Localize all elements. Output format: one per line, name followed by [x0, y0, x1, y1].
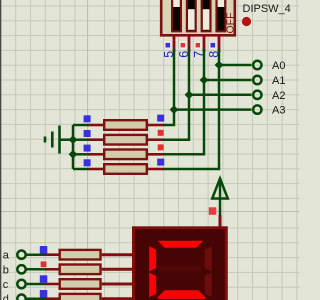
state square R3 left (low) [84, 145, 91, 152]
state square b (high) [40, 261, 48, 269]
terminal a [17, 251, 25, 259]
pin 5 stub [173, 35, 176, 53]
state square R2 right (high) [157, 129, 164, 136]
junction pin6/A2 [185, 90, 194, 99]
wire a to R5 [26, 253, 45, 256]
state square R2 left (low) [84, 130, 91, 137]
svg-text:A2: A2 [272, 90, 285, 102]
state square R3 right (high) [157, 144, 164, 151]
pin 8 stub [218, 35, 221, 53]
interactive toggle dot [242, 17, 251, 26]
terminal c [17, 280, 25, 288]
wire R8 to display seg d [102, 297, 133, 300]
resistor R6 [45, 265, 101, 275]
state square R1 right (low) [157, 115, 164, 122]
wire pin7 down to resistor R3 [163, 49, 204, 154]
7-segment display U1 [134, 228, 227, 300]
segment a (lit) [158, 241, 204, 248]
wire node A3 [174, 108, 252, 111]
wire node A2 [189, 94, 252, 97]
svg-text:b: b [3, 264, 9, 276]
wire ground to bus [60, 138, 73, 141]
wire bus to R4 [73, 168, 89, 171]
state square pin 6 (high) [179, 42, 186, 49]
wire R7 to display seg c [102, 283, 133, 286]
junction pin5/A3 [170, 105, 179, 114]
junction pin7/A1 [200, 76, 209, 85]
state square pin 5 (low) [164, 42, 171, 49]
power symbol [212, 179, 228, 216]
wire c to R7 [26, 283, 45, 286]
svg-text:A0: A0 [272, 60, 285, 72]
resistor R1 [89, 120, 164, 130]
state square R4 right (low) [157, 159, 164, 166]
segment c (floating/dim) [205, 273, 212, 298]
svg-text:c: c [3, 279, 9, 291]
terminal A3 [253, 105, 261, 113]
segment f (lit) [149, 246, 156, 271]
wire bus to R2 [73, 138, 89, 141]
state square a (low) [40, 246, 48, 254]
switch slot 4 (handle up) [216, 0, 225, 31]
state square pin 7 (high) [194, 42, 201, 49]
segment e (lit) [149, 273, 156, 298]
state square c (low) [40, 275, 48, 283]
wire pin6 down to resistor R2 [163, 49, 189, 140]
resistor R8 [45, 294, 101, 300]
wire bus to R3 [73, 153, 89, 156]
resistor R7 [45, 279, 101, 289]
wire pin8 down to resistor R4 [163, 49, 219, 169]
switch slot 2 (handle down) [187, 0, 196, 31]
svg-text:A1: A1 [272, 75, 285, 87]
switch slot 3 (handle down) [202, 0, 211, 31]
svg-text:DIPSW_4: DIPSW_4 [243, 3, 291, 15]
switch slot 1 (handle up) [172, 0, 181, 31]
terminal b [17, 265, 25, 273]
wire R6 to display seg b [102, 268, 133, 271]
terminal A0 [253, 61, 261, 69]
segment b (floating/dim) [205, 246, 212, 271]
pin 7 stub [203, 35, 206, 53]
ground [45, 126, 60, 154]
junction bus/ground [69, 135, 78, 144]
wire d to R8 [26, 297, 45, 300]
wire bus to R1 [73, 124, 89, 127]
junction pin8/A0 [215, 61, 224, 70]
resistor R2 [89, 135, 164, 145]
state square display top pin (high) [209, 207, 217, 215]
state square R1 left (low) [84, 115, 91, 122]
svg-text:a: a [3, 250, 10, 262]
svg-text:OFF: OFF [225, 13, 237, 34]
resistor R5 [45, 250, 101, 260]
resistor R4 [89, 164, 164, 174]
segment g (off) [158, 266, 204, 273]
ground bus wire [72, 125, 75, 169]
terminal A2 [253, 91, 261, 99]
dip switch DIPSW_4 [161, 0, 236, 35]
svg-text:A3: A3 [272, 105, 285, 117]
wire node A1 [204, 79, 252, 82]
junction bus/R3 [69, 150, 78, 159]
state square R4 left (low) [84, 159, 91, 166]
terminal d [17, 295, 25, 300]
pin 6 stub [188, 35, 191, 53]
state square d (low) [40, 290, 48, 298]
segment d (lit) [158, 290, 206, 299]
terminal A1 [253, 76, 261, 84]
wire pin5 down to resistor R1 [163, 49, 174, 125]
wire b to R6 [26, 268, 45, 271]
resistor R3 [89, 150, 164, 160]
display top pin stub [219, 215, 222, 227]
wire node A0 [219, 64, 252, 67]
svg-text:d: d [3, 294, 9, 300]
wire R5 to display seg a [102, 253, 133, 256]
state square pin 8 (low) [209, 42, 216, 49]
